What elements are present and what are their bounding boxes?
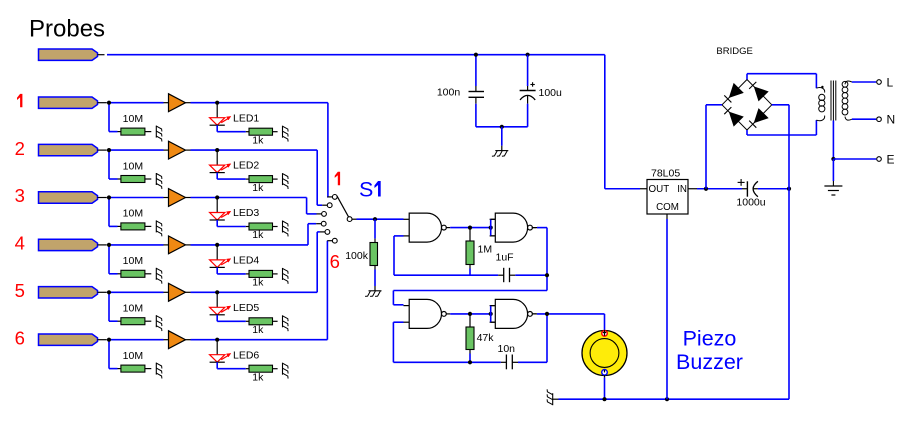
svg-text:10M: 10M xyxy=(123,303,143,315)
svg-text:5: 5 xyxy=(15,280,25,301)
svg-text:78L05: 78L05 xyxy=(651,168,680,180)
svg-text:2: 2 xyxy=(15,138,25,159)
svg-text:Probes: Probes xyxy=(29,15,105,42)
svg-text:10M: 10M xyxy=(123,113,143,125)
svg-text:4: 4 xyxy=(15,233,25,254)
svg-text:6: 6 xyxy=(15,327,25,348)
svg-text:47k: 47k xyxy=(477,332,495,344)
svg-text:6: 6 xyxy=(330,251,340,272)
svg-text:100u: 100u xyxy=(539,87,563,99)
svg-text:10M: 10M xyxy=(123,208,143,220)
svg-text:10M: 10M xyxy=(123,350,143,362)
svg-text:1k: 1k xyxy=(252,134,264,146)
svg-text:LED1: LED1 xyxy=(233,112,259,124)
svg-text:3: 3 xyxy=(15,185,25,206)
svg-text:1k: 1k xyxy=(252,229,264,241)
svg-text:10M: 10M xyxy=(123,255,143,267)
svg-text:LED3: LED3 xyxy=(233,207,259,219)
svg-text:Buzzer: Buzzer xyxy=(676,350,743,374)
svg-text:E: E xyxy=(887,152,895,166)
svg-text:1uF: 1uF xyxy=(496,252,514,264)
svg-text:100n: 100n xyxy=(437,86,461,98)
svg-text:OUT: OUT xyxy=(649,184,670,195)
svg-text:1k: 1k xyxy=(252,324,264,336)
svg-text:10M: 10M xyxy=(123,160,143,172)
svg-text:N: N xyxy=(887,113,896,127)
svg-text:LED6: LED6 xyxy=(233,349,259,361)
svg-text:1k: 1k xyxy=(252,277,264,289)
svg-text:LED5: LED5 xyxy=(233,302,259,314)
svg-text:S: S xyxy=(359,178,373,202)
svg-text:10n: 10n xyxy=(498,343,516,355)
svg-text:COM: COM xyxy=(656,202,679,213)
svg-text:IN: IN xyxy=(677,184,687,195)
svg-text:L: L xyxy=(887,75,894,89)
svg-text:Piezo: Piezo xyxy=(683,327,737,351)
svg-text:LED4: LED4 xyxy=(233,255,259,267)
svg-text:1000u: 1000u xyxy=(736,197,765,209)
svg-text:100k: 100k xyxy=(345,250,369,262)
svg-text:1M: 1M xyxy=(478,244,493,256)
svg-text:1k: 1k xyxy=(252,371,264,383)
svg-text:BRIDGE: BRIDGE xyxy=(716,46,752,57)
svg-text:1k: 1k xyxy=(252,182,264,194)
svg-text:LED2: LED2 xyxy=(233,160,259,172)
